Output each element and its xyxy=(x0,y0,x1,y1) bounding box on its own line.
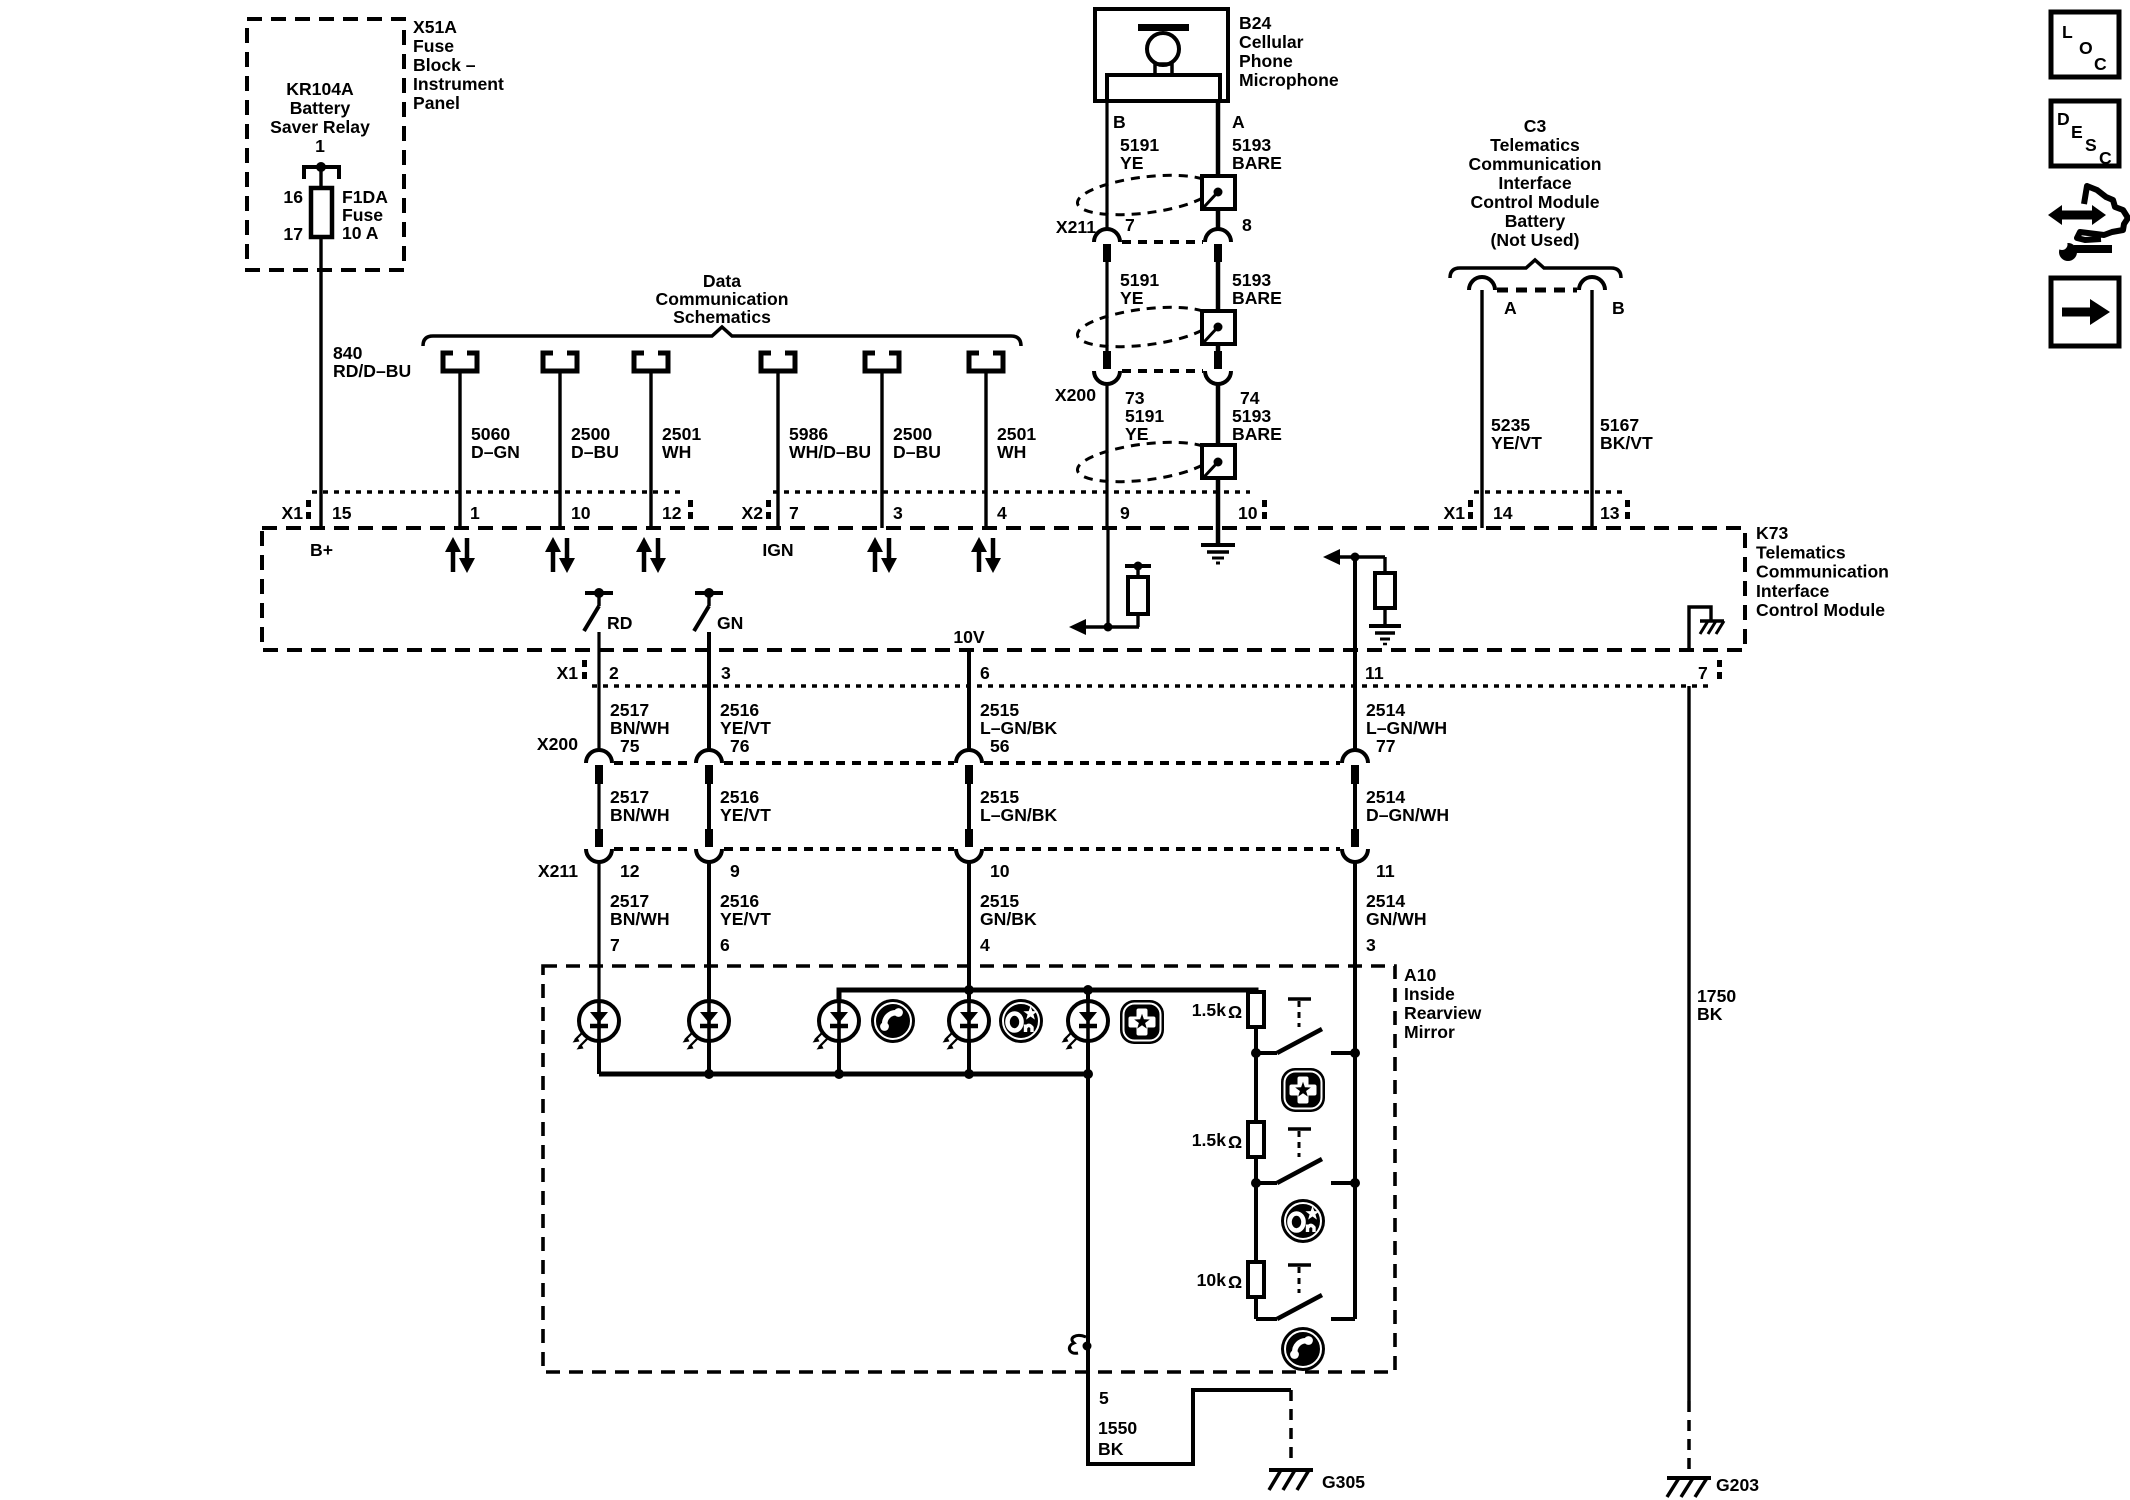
svg-text:X211: X211 xyxy=(1056,217,1096,237)
shield ellipse 3 xyxy=(1075,436,1214,488)
svg-text:B: B xyxy=(1612,298,1625,318)
wire 1550 BK xyxy=(1088,1372,1291,1464)
dashed link A-B xyxy=(1497,288,1577,293)
wire 2517 BN/WH segment 3 xyxy=(597,862,600,1001)
pin 7 internal: chassis ground xyxy=(1689,607,1724,650)
svg-text:Rearview: Rearview xyxy=(1404,1003,1482,1023)
svg-text:1.5k: 1.5k xyxy=(1192,1130,1226,1150)
svg-text:BARE: BARE xyxy=(1232,424,1282,444)
wire 5191 YE (segment 2) xyxy=(1105,262,1108,351)
wire 5235 YE/VT xyxy=(1480,290,1483,528)
module K73 dashed box xyxy=(262,528,1745,650)
connector C3 cavity B xyxy=(1579,277,1605,290)
connector row X1 (top right group 14/13) xyxy=(1443,492,1630,523)
svg-text:K73: K73 xyxy=(1756,523,1788,543)
connector row X1 (top left group) xyxy=(281,492,693,523)
svg-text:GN/WH: GN/WH xyxy=(1366,909,1427,929)
svg-text:11: 11 xyxy=(1365,663,1384,683)
bus arrows under pin at x=651 xyxy=(636,537,666,573)
wire 2515 GN/BK segment 3 xyxy=(967,862,971,1001)
svg-text:Ω: Ω xyxy=(1228,1272,1242,1292)
svg-text:BK: BK xyxy=(1098,1439,1124,1459)
LED cathode stubs to bottom rail xyxy=(599,1041,969,1074)
svg-text:Panel: Panel xyxy=(413,93,460,113)
switch S2 (OnStar button) xyxy=(1251,1129,1360,1188)
resistor R3 10k xyxy=(1254,1183,1258,1262)
svg-text:5193: 5193 xyxy=(1232,270,1271,290)
svg-text:7: 7 xyxy=(610,935,620,955)
mirror A10 dashed box xyxy=(543,966,1395,1372)
svg-text:2516: 2516 xyxy=(720,891,759,911)
connector X211 cavity 11 xyxy=(1342,829,1368,862)
svg-text:Ω: Ω xyxy=(1228,1132,1242,1152)
wire 2515 L&#8211;GN/BK segment 2 xyxy=(967,784,971,829)
pin 9 internal: pull-up resistor xyxy=(1125,562,1151,628)
svg-text:L: L xyxy=(2062,22,2073,42)
svg-text:3: 3 xyxy=(721,663,731,683)
svg-text:D–BU: D–BU xyxy=(893,442,941,462)
wire 2517 BN/WH segment 2 xyxy=(597,784,600,829)
wire 2516 YE/VT segment 2 xyxy=(707,784,711,829)
svg-text:Control Module: Control Module xyxy=(1471,192,1600,212)
svg-text:RD/D–BU: RD/D–BU xyxy=(333,361,411,381)
svg-text:O: O xyxy=(2079,38,2093,58)
resistor R2 1.5k xyxy=(1254,1053,1258,1122)
wire 5060 D&#8211;GN to pin 1 xyxy=(458,371,461,528)
svg-text:15: 15 xyxy=(332,503,352,523)
label Data Communication Schematics xyxy=(656,271,789,327)
wire 2501 WH to pin 4 xyxy=(984,371,987,528)
svg-text:L–GN/BK: L–GN/BK xyxy=(980,718,1058,738)
svg-text:BN/WH: BN/WH xyxy=(610,805,670,825)
pin labels 16 / 17 and fuse value xyxy=(283,187,388,244)
svg-text:L–GN/BK: L–GN/BK xyxy=(980,805,1058,825)
svg-text:12: 12 xyxy=(662,503,682,523)
svg-text:10V: 10V xyxy=(953,627,985,647)
wire 5191 YE (mic B) xyxy=(1105,101,1108,229)
wire 2517 BN/WH segment 1 xyxy=(597,632,600,750)
svg-text:Mirror: Mirror xyxy=(1404,1022,1455,1042)
label K73 Telematics Communication Interface Control Module xyxy=(1756,523,1889,620)
bus arrows under pin at x=560 xyxy=(545,537,575,573)
svg-text:74: 74 xyxy=(1240,388,1260,408)
junction node on top rail at w3 xyxy=(964,985,974,995)
ground G305 xyxy=(1269,1470,1313,1490)
svg-text:77: 77 xyxy=(1376,736,1396,756)
svg-text:14: 14 xyxy=(1493,503,1513,523)
label 840 RD/D-BU xyxy=(333,343,411,381)
data-bus connector stub 4 xyxy=(761,353,795,371)
shield ellipse 1 xyxy=(1075,169,1214,221)
pin 11 wire inside module xyxy=(1353,557,1357,650)
svg-text:Communication: Communication xyxy=(656,289,789,309)
svg-text:13: 13 xyxy=(1600,503,1620,523)
svg-text:GN: GN xyxy=(717,613,743,633)
label A10 Inside Rearview Mirror xyxy=(1404,965,1482,1042)
svg-text:7: 7 xyxy=(1698,663,1708,683)
svg-text:Control Module: Control Module xyxy=(1756,600,1885,620)
svg-text:75: 75 xyxy=(620,736,640,756)
bus arrows under pin at x=882 xyxy=(867,537,897,573)
svg-text:Communication: Communication xyxy=(1469,154,1602,174)
svg-text:Schematics: Schematics xyxy=(673,307,771,327)
wire into pin 9 xyxy=(1105,492,1108,528)
ground G203 xyxy=(1667,1478,1711,1497)
wire 2501 WH to pin 12 xyxy=(649,371,652,528)
svg-text:Battery: Battery xyxy=(1505,211,1566,231)
svg-text:B24: B24 xyxy=(1239,13,1271,33)
svg-text:B: B xyxy=(1113,112,1126,132)
switch RD inside module xyxy=(584,588,632,633)
connector X200 cavity 76 xyxy=(696,750,722,784)
svg-text:C: C xyxy=(2099,148,2112,168)
switch S3 (phone button) xyxy=(1256,1265,1355,1319)
svg-text:C: C xyxy=(2094,54,2107,74)
svg-text:D–GN/WH: D–GN/WH xyxy=(1366,805,1449,825)
svg-text:GN/BK: GN/BK xyxy=(980,909,1037,929)
icon medic cross (backlight) xyxy=(1120,1000,1164,1044)
switch S1 (medic button) xyxy=(1251,999,1360,1058)
svg-text:2500: 2500 xyxy=(571,424,610,444)
svg-text:5191: 5191 xyxy=(1125,406,1164,426)
wire 2500 D&#8211;BU to pin 10 xyxy=(558,371,561,528)
bottom rail xyxy=(599,1072,1088,1077)
label 5060 D&#8211;GN xyxy=(471,424,520,462)
bottom pin number labels xyxy=(609,663,1708,683)
label X51A Fuse Block Instrument Panel xyxy=(413,17,504,113)
wire into pin 10 xyxy=(1216,492,1221,528)
svg-text:9: 9 xyxy=(1120,503,1130,523)
svg-text:Battery: Battery xyxy=(290,98,351,118)
label 2500 D&#8211;BU xyxy=(571,424,619,462)
svg-text:2516: 2516 xyxy=(720,787,759,807)
bus arrows under pin at x=460 xyxy=(445,537,475,573)
svg-text:Telematics: Telematics xyxy=(1490,135,1580,155)
svg-text:1: 1 xyxy=(315,136,325,156)
twisted-leads pigtail on common wire xyxy=(1069,1336,1091,1354)
fuse block X51A dashed box xyxy=(247,19,404,270)
label KR104A Battery Saver Relay 1 xyxy=(270,79,370,156)
data-bus connector stub 1 xyxy=(443,353,477,371)
svg-text:Microphone: Microphone xyxy=(1239,70,1339,90)
svg-text:12: 12 xyxy=(620,861,640,881)
pin 10 internal: ground xyxy=(1201,528,1235,563)
svg-text:10: 10 xyxy=(571,503,591,523)
svg-text:76: 76 xyxy=(730,736,750,756)
wire 1750 BK xyxy=(1687,686,1690,1401)
connector X200 cavity 56 xyxy=(956,750,982,784)
label B24 Cellular Phone Microphone xyxy=(1239,13,1339,90)
bus arrows under pin at x=986 xyxy=(971,537,1001,573)
svg-text:BN/WH: BN/WH xyxy=(610,718,670,738)
junction nodes on bottom rail xyxy=(704,1069,714,1079)
svg-text:Data: Data xyxy=(703,271,741,291)
svg-text:2: 2 xyxy=(609,663,619,683)
svg-text:1: 1 xyxy=(470,503,480,523)
connector X200 cavity 75 xyxy=(586,750,612,784)
wire 5193 BARE (segment 2) xyxy=(1216,262,1221,351)
svg-text:5060: 5060 xyxy=(471,424,510,444)
svg-text:5193: 5193 xyxy=(1232,406,1271,426)
wire 2516 YE/VT segment 1 xyxy=(707,632,711,750)
wire 2514 GN/WH segment 3 xyxy=(1353,862,1357,966)
svg-text:YE/VT: YE/VT xyxy=(720,718,771,738)
label C3 Telematics ... Battery (Not Used) xyxy=(1469,116,1602,250)
svg-text:X1: X1 xyxy=(1443,503,1465,523)
svg-text:BK/VT: BK/VT xyxy=(1600,433,1653,453)
svg-text:5167: 5167 xyxy=(1600,415,1639,435)
switch GN inside module xyxy=(694,588,743,633)
svg-text:WH: WH xyxy=(997,442,1026,462)
label 2501 WH xyxy=(662,424,701,462)
svg-text:9: 9 xyxy=(730,861,740,881)
svg-text:S: S xyxy=(2085,135,2097,155)
svg-text:7: 7 xyxy=(1125,215,1135,235)
svg-text:56: 56 xyxy=(990,736,1010,756)
icon box forward arrow xyxy=(2051,278,2119,346)
dashed drop to G305 xyxy=(1289,1390,1293,1462)
svg-text:5235: 5235 xyxy=(1491,415,1530,435)
svg-text:2516: 2516 xyxy=(720,700,759,720)
svg-text:Instrument: Instrument xyxy=(413,74,504,94)
wire 5986 WH/D&#8211;BU to pin 7 xyxy=(776,371,779,528)
svg-text:D–GN: D–GN xyxy=(471,442,520,462)
LED D4 (OnStar backlight) xyxy=(943,1001,990,1050)
svg-text:BARE: BARE xyxy=(1232,153,1282,173)
svg-text:Saver Relay: Saver Relay xyxy=(270,117,370,137)
wire 5193 BARE (mic A, drain) xyxy=(1216,101,1221,229)
svg-text:A: A xyxy=(1504,298,1517,318)
wire R1 to switch 1 xyxy=(1254,1027,1258,1053)
svg-text:2517: 2517 xyxy=(610,891,649,911)
wire LED5 branch xyxy=(1086,990,1090,1001)
icon box LOC xyxy=(2051,12,2119,77)
svg-text:5191: 5191 xyxy=(1120,270,1159,290)
svg-text:Communication: Communication xyxy=(1756,562,1889,582)
wire 5193 BARE (segment 3) xyxy=(1216,384,1221,492)
connector C3 cavity A xyxy=(1469,277,1495,290)
svg-text:8: 8 xyxy=(1242,215,1252,235)
label 2500 D&#8211;BU xyxy=(893,424,941,462)
right rail (pin 3 wire) xyxy=(1353,966,1357,1319)
svg-text:YE/VT: YE/VT xyxy=(1491,433,1542,453)
svg-text:Interface: Interface xyxy=(1756,581,1830,601)
shield ellipse 2 xyxy=(1075,301,1214,353)
svg-text:Fuse: Fuse xyxy=(413,36,454,56)
svg-text:5: 5 xyxy=(1099,1388,1109,1408)
svg-text:D: D xyxy=(2057,109,2070,129)
fuse F1DA 10A xyxy=(311,188,332,237)
resistor R1 1.5k xyxy=(1248,992,1264,1027)
svg-text:IGN: IGN xyxy=(762,540,793,560)
wire LED5/common down to pin 5 xyxy=(1086,1041,1090,1372)
svg-text:2514: 2514 xyxy=(1366,787,1405,807)
data-bus connector stub 2 xyxy=(543,353,577,371)
svg-text:YE: YE xyxy=(1125,424,1149,444)
svg-text:YE: YE xyxy=(1120,288,1144,308)
svg-text:2517: 2517 xyxy=(610,700,649,720)
svg-text:YE: YE xyxy=(1120,153,1144,173)
wire 2514 L&#8211;GN/WH segment 1 xyxy=(1353,650,1357,750)
svg-text:7: 7 xyxy=(789,503,799,523)
svg-text:Fuse: Fuse xyxy=(342,205,383,225)
shield splice box 3 xyxy=(1202,445,1235,478)
svg-text:X2: X2 xyxy=(741,503,763,523)
svg-text:5191: 5191 xyxy=(1120,135,1159,155)
svg-text:Inside: Inside xyxy=(1404,984,1455,1004)
svg-text:3: 3 xyxy=(1366,935,1376,955)
shield splice box 2 xyxy=(1202,311,1235,344)
microphone symbol xyxy=(1107,24,1220,101)
svg-text:10: 10 xyxy=(1238,503,1258,523)
LED D3 (phone backlight) xyxy=(813,1001,860,1050)
wire 840 RD/D-BU xyxy=(319,237,322,528)
svg-text:G203: G203 xyxy=(1716,1475,1759,1495)
connector X211 cavity 10 xyxy=(956,829,982,862)
junction node on top rail at LED5 branch xyxy=(1083,985,1093,995)
icon phone (button) xyxy=(1281,1327,1325,1371)
svg-text:2501: 2501 xyxy=(997,424,1036,444)
svg-text:10: 10 xyxy=(990,861,1010,881)
svg-text:X1: X1 xyxy=(556,663,578,683)
svg-text:2514: 2514 xyxy=(1366,700,1405,720)
top rail from pin 4 feed xyxy=(839,990,1256,1001)
svg-text:2500: 2500 xyxy=(893,424,932,444)
data-bus connector stub 5 xyxy=(865,353,899,371)
svg-text:2515: 2515 xyxy=(980,700,1019,720)
wire 5167 BK/VT xyxy=(1590,290,1593,528)
connector X200 (mic pins 73/74) xyxy=(1103,351,1111,369)
svg-text:BN/WH: BN/WH xyxy=(610,909,670,929)
svg-text:1750: 1750 xyxy=(1697,986,1736,1006)
brace C3 xyxy=(1450,260,1621,278)
connector X211 cavity 9 xyxy=(696,829,722,862)
wire 2500 D&#8211;BU to pin 3 xyxy=(880,371,883,528)
svg-text:WH: WH xyxy=(662,442,691,462)
LED D5 (medic backlight) xyxy=(1062,1001,1109,1050)
svg-text:A10: A10 xyxy=(1404,965,1436,985)
brace over data-bus connectors xyxy=(423,327,1021,346)
svg-text:5193: 5193 xyxy=(1232,135,1271,155)
svg-text:X1: X1 xyxy=(281,503,303,523)
icon medic cross (button) xyxy=(1281,1068,1325,1112)
svg-text:X211: X211 xyxy=(538,861,578,881)
svg-text:D–BU: D–BU xyxy=(571,442,619,462)
wire 2514 D&#8211;GN/WH segment 2 xyxy=(1353,784,1357,829)
svg-text:Block –: Block – xyxy=(413,55,476,75)
svg-text:2514: 2514 xyxy=(1366,891,1405,911)
LED D2 (mirror pin 6) xyxy=(683,1001,730,1050)
data-bus connector stub 3 xyxy=(634,353,668,371)
svg-text:16: 16 xyxy=(283,187,303,207)
wire pin4 through rail to LED4 xyxy=(967,966,971,1001)
svg-text:2515: 2515 xyxy=(980,891,1019,911)
svg-text:3: 3 xyxy=(893,503,903,523)
svg-text:X51A: X51A xyxy=(413,17,457,37)
svg-text:WH/D–BU: WH/D–BU xyxy=(789,442,871,462)
svg-text:X200: X200 xyxy=(1055,385,1096,405)
svg-text:Phone: Phone xyxy=(1239,51,1293,71)
svg-text:G305: G305 xyxy=(1322,1472,1365,1492)
connector X211 (mic pins 7/8) xyxy=(1094,229,1120,242)
label 5986 WH/D&#8211;BU xyxy=(789,424,871,462)
svg-text:Interface: Interface xyxy=(1498,173,1572,193)
pin 11 internal: resistor to ground xyxy=(1369,557,1401,644)
svg-text:1550: 1550 xyxy=(1098,1418,1137,1438)
svg-text:Ω: Ω xyxy=(1228,1002,1242,1022)
pin 11 internal: output arrow xyxy=(1323,549,1385,565)
icon phone (backlight) xyxy=(871,999,915,1043)
wire R3 to switch 3 xyxy=(1254,1297,1258,1319)
shield splice box 1 xyxy=(1202,176,1235,209)
svg-text:2517: 2517 xyxy=(610,787,649,807)
svg-text:11: 11 xyxy=(1376,861,1395,881)
svg-text:KR104A: KR104A xyxy=(286,79,354,99)
svg-text:C3: C3 xyxy=(1524,116,1547,136)
microphone B24 box xyxy=(1095,9,1228,101)
svg-text:17: 17 xyxy=(283,224,303,244)
svg-text:6: 6 xyxy=(720,935,730,955)
svg-text:YE/VT: YE/VT xyxy=(720,909,771,929)
svg-text:10k: 10k xyxy=(1197,1270,1227,1290)
svg-text:BK: BK xyxy=(1697,1004,1723,1024)
svg-text:YE/VT: YE/VT xyxy=(720,805,771,825)
svg-text:73: 73 xyxy=(1125,388,1145,408)
svg-text:B+: B+ xyxy=(310,540,333,560)
svg-text:10 A: 10 A xyxy=(342,223,379,243)
connector row X2 (top middle group) xyxy=(741,492,1267,523)
wire 5191 YE (segment 3) xyxy=(1105,384,1108,492)
data-bus connector stub 6 xyxy=(969,353,1003,371)
svg-text:(Not Used): (Not Used) xyxy=(1491,230,1580,250)
wire 2516 YE/VT segment 3 xyxy=(707,862,711,1001)
svg-text:BARE: BARE xyxy=(1232,288,1282,308)
dashed drop to G203 xyxy=(1687,1401,1691,1474)
svg-text:Cellular: Cellular xyxy=(1239,32,1304,52)
X200 interconnect dashed line xyxy=(614,761,1340,765)
connector X200 cavity 77 xyxy=(1342,750,1368,784)
LED D1 (mirror pin 7) xyxy=(573,1001,620,1050)
icon OnStar (backlight) xyxy=(999,999,1043,1043)
pin 9 internal: wire xyxy=(1106,528,1109,627)
svg-text:E: E xyxy=(2071,122,2083,142)
label 2501 WH xyxy=(997,424,1036,462)
svg-text:F1DA: F1DA xyxy=(342,187,388,207)
svg-text:2501: 2501 xyxy=(662,424,701,444)
relay KR104A bus-bar contact xyxy=(304,162,339,188)
svg-text:X200: X200 xyxy=(537,734,578,754)
svg-text:Telematics: Telematics xyxy=(1756,542,1846,562)
X211 interconnect dashed line xyxy=(614,847,1340,851)
icon OnStar (button) xyxy=(1281,1199,1325,1243)
svg-text:4: 4 xyxy=(997,503,1007,523)
pin 9 internal: output arrow xyxy=(1069,619,1139,635)
svg-text:RD: RD xyxy=(607,613,632,633)
svg-text:L–GN/WH: L–GN/WH xyxy=(1366,718,1447,738)
svg-text:1.5k: 1.5k xyxy=(1192,1000,1226,1020)
svg-text:840: 840 xyxy=(333,343,363,363)
top pin number labels xyxy=(332,503,1620,523)
svg-text:2515: 2515 xyxy=(980,787,1019,807)
wire R2 to switch 2 xyxy=(1254,1157,1258,1183)
svg-text:5986: 5986 xyxy=(789,424,828,444)
icon harness repair (arrow + outline + wrench) xyxy=(2048,186,2128,261)
svg-text:6: 6 xyxy=(980,663,990,683)
wire 2515 L&#8211;GN/BK segment 1 xyxy=(967,650,971,750)
connector row X1 (bottom) xyxy=(556,660,1722,686)
connector X211 cavity 12 xyxy=(586,829,612,862)
icon box DESC xyxy=(2051,101,2119,168)
